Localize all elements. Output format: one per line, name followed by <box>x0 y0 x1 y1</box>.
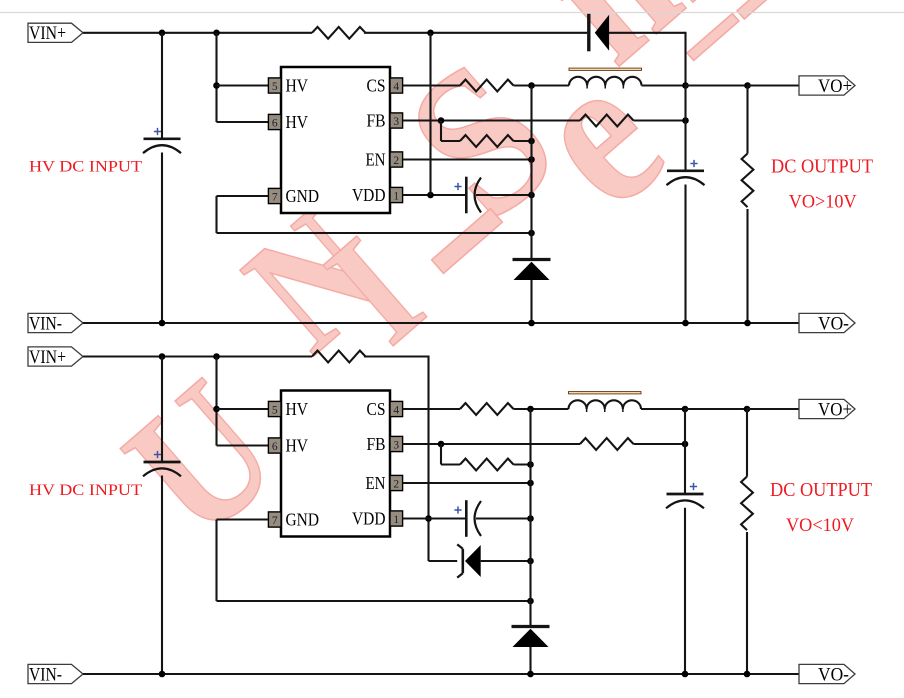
svg-text:7: 7 <box>272 515 278 527</box>
svg-text:VO<10V: VO<10V <box>786 516 855 536</box>
svg-text:HV DC INPUT: HV DC INPUT <box>29 159 142 176</box>
svg-text:DC OUTPUT: DC OUTPUT <box>771 156 873 177</box>
svg-text:VIN+: VIN+ <box>29 23 66 44</box>
svg-text:CS: CS <box>367 399 386 419</box>
svg-text:2: 2 <box>393 155 399 167</box>
svg-text:VO+: VO+ <box>818 76 852 97</box>
svg-text:HV: HV <box>286 112 309 132</box>
svg-text:HV: HV <box>286 399 309 419</box>
svg-text:VO+: VO+ <box>818 399 852 420</box>
svg-text:2: 2 <box>393 478 399 490</box>
svg-text:3: 3 <box>393 116 399 128</box>
svg-text:6: 6 <box>272 441 278 453</box>
svg-text:HV: HV <box>286 435 309 455</box>
svg-text:VO>10V: VO>10V <box>789 192 858 212</box>
svg-text:3: 3 <box>393 439 399 451</box>
svg-text:VO-: VO- <box>818 664 849 685</box>
svg-text:7: 7 <box>272 191 278 203</box>
svg-text:CS: CS <box>367 75 386 95</box>
svg-text:GND: GND <box>286 509 320 529</box>
svg-text:VIN-: VIN- <box>29 313 62 334</box>
svg-text:1: 1 <box>393 514 399 526</box>
svg-text:EN: EN <box>366 473 386 493</box>
svg-text:FB: FB <box>367 434 386 454</box>
svg-text:HV: HV <box>286 75 309 95</box>
svg-text:6: 6 <box>272 117 278 129</box>
svg-text:VDD: VDD <box>352 508 386 528</box>
svg-text:1: 1 <box>393 190 399 202</box>
svg-text:VO-: VO- <box>818 313 849 334</box>
svg-text:4: 4 <box>393 81 399 93</box>
svg-text:4: 4 <box>393 404 399 416</box>
svg-text:DC OUTPUT: DC OUTPUT <box>770 480 872 501</box>
svg-text:5: 5 <box>272 404 278 416</box>
svg-text:GND: GND <box>286 186 320 206</box>
svg-text:FB: FB <box>367 110 386 130</box>
svg-text:5: 5 <box>272 81 278 93</box>
svg-text:VIN-: VIN- <box>29 664 62 685</box>
svg-text:EN: EN <box>366 149 386 169</box>
svg-text:VDD: VDD <box>352 185 386 205</box>
svg-text:HV DC INPUT: HV DC INPUT <box>29 482 142 499</box>
svg-text:VIN+: VIN+ <box>29 347 66 368</box>
